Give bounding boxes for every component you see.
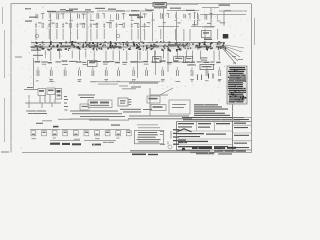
diode CR7 <box>95 131 100 136</box>
paper edge left <box>3 7 5 142</box>
capacitor C29 <box>146 67 148 76</box>
relay K1 <box>38 89 46 96</box>
legend dense text right <box>196 150 246 154</box>
box B3 <box>169 100 190 114</box>
text above bottom strip <box>42 119 129 122</box>
wire main horizontal <box>31 43 225 48</box>
module A5 <box>95 41 109 50</box>
net labels top row <box>25 8 31 9</box>
cable fan right <box>165 44 244 65</box>
diode CR9 <box>116 131 121 136</box>
capacitor C13 <box>116 23 118 28</box>
capacitor C21 <box>37 67 39 76</box>
terminal strip TB1 <box>88 100 112 108</box>
wires under relays <box>40 95 55 109</box>
module A17 box <box>174 56 184 62</box>
resistor R6 <box>70 23 72 27</box>
capacitor C5 <box>62 23 64 28</box>
resistor R2 <box>42 23 44 27</box>
diode CR2 <box>42 131 47 136</box>
text above B4 <box>122 88 136 89</box>
left labels <box>29 17 43 56</box>
boxed note <box>135 124 164 143</box>
connector J1 box <box>153 3 167 7</box>
module A18 box <box>185 57 193 62</box>
module A10 <box>175 42 191 51</box>
title corner text <box>178 140 187 144</box>
module A15 box <box>153 57 162 63</box>
wire bus second line <box>48 12 94 14</box>
wire bottom bus <box>30 130 130 141</box>
capacitor C11 <box>103 23 105 28</box>
title block <box>173 105 252 154</box>
wire drops long below <box>138 51 169 79</box>
wire risers tall <box>51 12 88 42</box>
wire K1 feed <box>24 58 61 108</box>
capacitor C17 <box>144 23 146 28</box>
main row dark streaks <box>60 45 71 47</box>
pin ticks 2 <box>198 75 202 81</box>
transistors on main row <box>35 34 39 38</box>
wire drops from bus <box>36 14 38 19</box>
module A7 <box>125 41 144 50</box>
capacitor C24 <box>79 67 81 76</box>
labels under lower caps <box>36 79 39 82</box>
specks above parts list <box>232 56 243 64</box>
connector J2 box <box>200 65 214 70</box>
box B4 <box>118 98 128 106</box>
note text lower-left <box>26 87 47 114</box>
resistor R8 <box>83 23 85 27</box>
module A13 <box>56 89 62 100</box>
parts list table (dense) <box>227 66 247 104</box>
wire top right <box>202 8 247 12</box>
mid-right text rows <box>128 116 192 120</box>
resistor R10 <box>96 23 98 27</box>
center text rows <box>69 111 125 120</box>
module A19 box <box>88 61 98 67</box>
capacitor C23 <box>64 67 66 76</box>
diode CR4 <box>63 131 68 136</box>
flag notes column <box>160 131 171 145</box>
value labels upper <box>38 22 42 23</box>
marks column x129 <box>128 99 131 105</box>
marks column x65 <box>64 96 68 111</box>
switch S2 <box>151 105 166 111</box>
label top right <box>219 4 231 5</box>
capacitor C25 <box>92 67 94 76</box>
pin ticks <box>209 74 214 79</box>
capacitor C1 <box>35 23 37 28</box>
capacitor C31 <box>177 67 179 76</box>
capacitor C32 <box>191 67 193 76</box>
module A4 <box>82 42 96 51</box>
wire risers tall right <box>141 7 177 43</box>
wire top bus <box>48 11 246 15</box>
capacitor C40 pair <box>195 12 198 26</box>
switch S1 <box>147 96 160 103</box>
wire mid-right <box>150 88 173 116</box>
ground symbols <box>49 80 53 82</box>
capacitor C27 <box>118 67 120 76</box>
module A1 <box>31 41 44 49</box>
capacitor C3 <box>48 23 50 28</box>
scan noise speckle <box>7 2 253 154</box>
relay K2 <box>47 88 55 95</box>
diode CR8 <box>105 131 110 136</box>
legend text bottom <box>130 150 244 151</box>
module A12 <box>217 41 226 50</box>
resistor R14 <box>123 23 125 27</box>
capacitor C9 <box>90 23 92 28</box>
stamp circle outline <box>168 145 172 149</box>
capacitor C22 <box>50 67 52 76</box>
labels mid-right <box>129 83 158 88</box>
capacitor C7 <box>77 23 79 28</box>
module A3 <box>65 41 81 51</box>
reference designator labels <box>35 61 41 62</box>
wire drops to main row <box>35 29 37 40</box>
module A8 <box>146 41 158 50</box>
note text center <box>78 95 95 99</box>
stamp foldout bottom-left <box>132 154 158 156</box>
module A2 <box>47 41 63 51</box>
module A16 box <box>80 104 89 110</box>
capacitor C26 <box>105 67 107 76</box>
label left of J2 <box>187 65 196 66</box>
diode CR10 <box>126 131 131 136</box>
resistor R4 <box>56 23 58 27</box>
labels above center cluster <box>90 81 160 86</box>
diode CR1 <box>31 131 36 136</box>
diode CR6 <box>84 131 89 136</box>
label right of A18 <box>200 57 208 60</box>
extra text rows near B4 <box>120 109 152 113</box>
module A9 <box>160 41 171 52</box>
diode CR5 <box>73 131 78 136</box>
capacitor C34 <box>219 67 221 76</box>
wire from J1 <box>167 3 199 5</box>
wire bus y26 right <box>140 26 215 28</box>
label RT1 <box>53 126 59 128</box>
notes text block <box>194 104 218 105</box>
small text bottom center <box>92 142 114 146</box>
module A6 <box>109 41 124 50</box>
wire riser x211 <box>202 8 224 27</box>
capacitor C33 <box>206 67 208 76</box>
wire drops below main row <box>37 51 39 61</box>
stamp FOLDOUT FRAME <box>50 143 81 146</box>
haze band main row <box>31 43 225 50</box>
capacitor C28 <box>133 67 135 76</box>
resistor R12 <box>110 23 112 27</box>
border frame <box>11 4 252 153</box>
stamp dark dot <box>182 148 185 151</box>
module A11 <box>192 41 213 51</box>
diode CR3 <box>52 131 57 136</box>
left margin small text <box>15 57 22 58</box>
capacitor C15 <box>131 23 133 28</box>
net label dark mid <box>129 14 143 17</box>
capacitor C30 <box>162 67 164 76</box>
dark component blob <box>223 34 229 39</box>
border tick right <box>254 18 256 45</box>
border tick bottom-left <box>1 151 9 153</box>
resistor R16 <box>137 23 139 27</box>
module A14 <box>202 31 213 41</box>
